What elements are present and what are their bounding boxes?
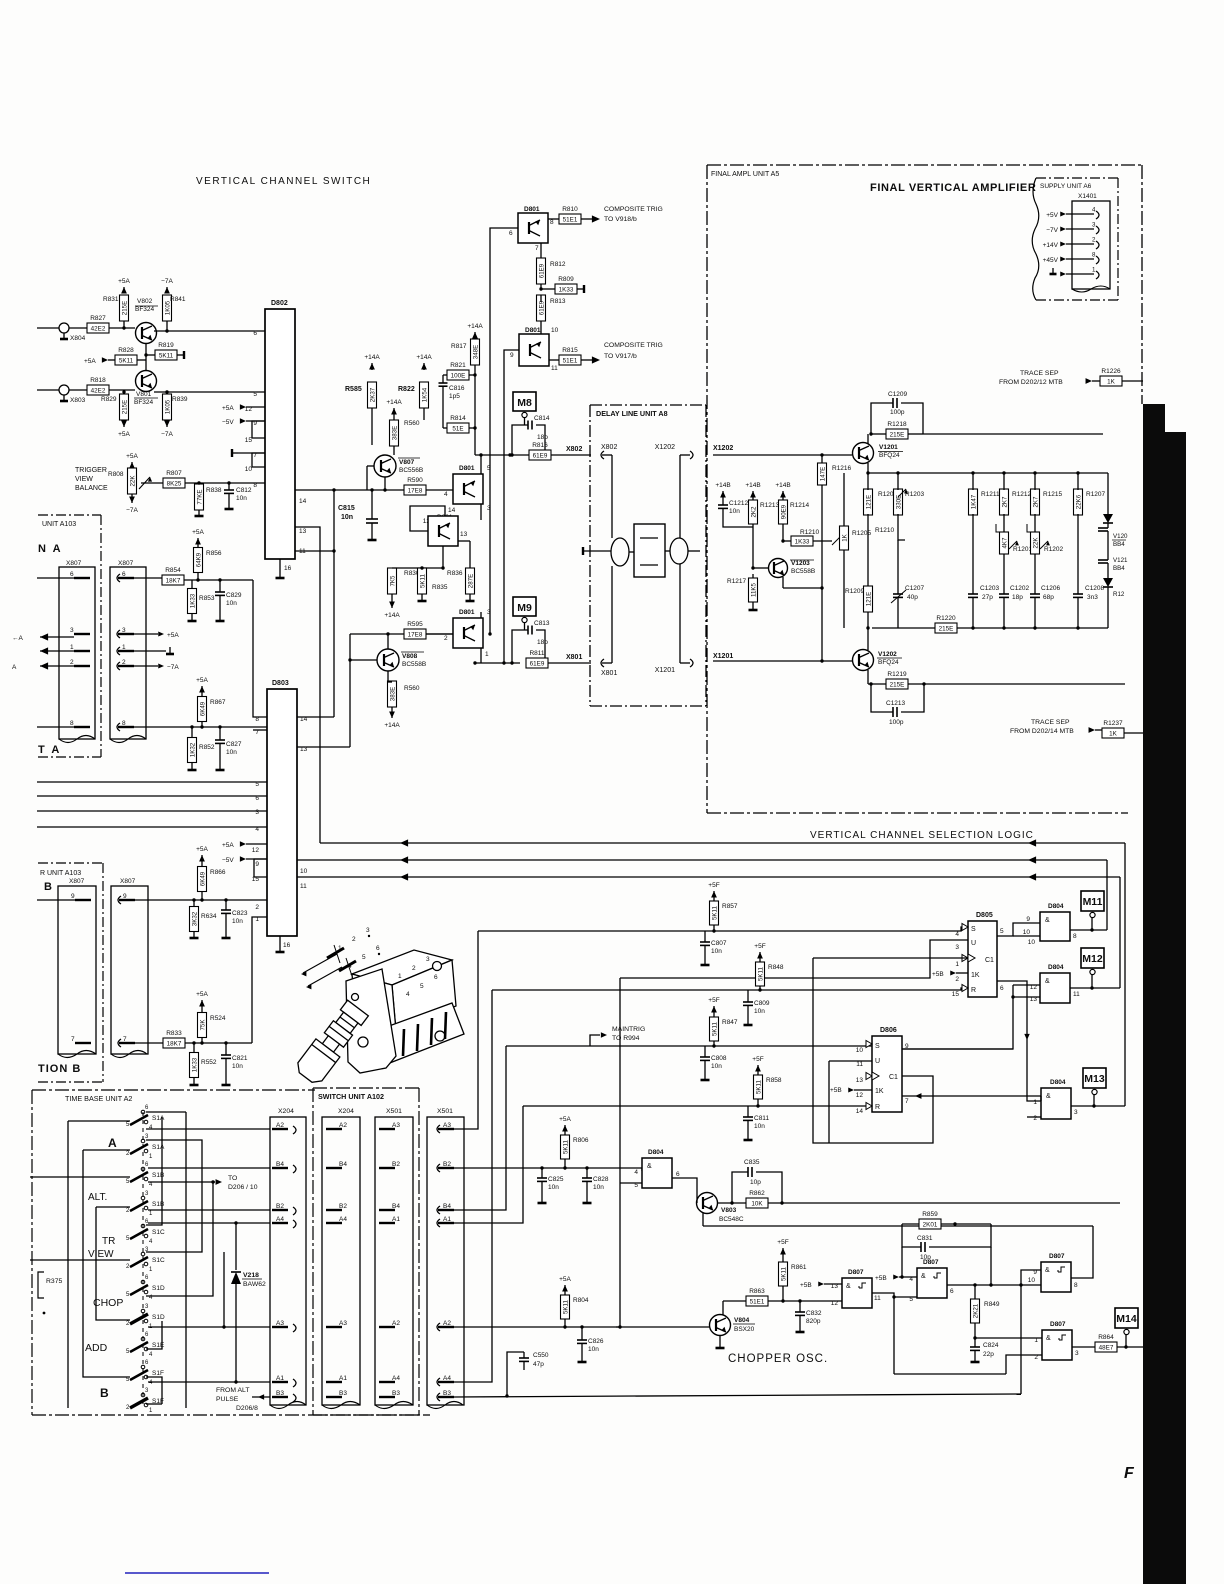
- svg-text:B: B: [100, 1386, 109, 1400]
- svg-text:1K54: 1K54: [421, 387, 428, 402]
- loop pin7 pin10: [252, 453, 265, 467]
- svg-text:8: 8: [550, 219, 554, 226]
- svg-text:6: 6: [1000, 985, 1004, 992]
- svg-text:V120: V120: [1113, 533, 1128, 540]
- svg-text:10n: 10n: [729, 508, 740, 515]
- svg-text:9: 9: [255, 861, 259, 868]
- switch assembly drawing: [294, 950, 464, 1087]
- svg-text:&: &: [1046, 1093, 1051, 1100]
- svg-text:R806: R806: [573, 1137, 589, 1144]
- wire pin6 stub: [37, 577, 74, 579]
- svg-text:2: 2: [1033, 1115, 1037, 1122]
- wire: [109, 389, 135, 391]
- svg-text:R812: R812: [550, 261, 566, 268]
- svg-text:S1A: S1A: [152, 1115, 165, 1122]
- resistor R1209: [864, 586, 873, 612]
- svg-text:X204: X204: [338, 1108, 354, 1115]
- wire V803 emitter to R862: [717, 1202, 746, 1204]
- svg-text:R841: R841: [170, 296, 186, 303]
- svg-text:3: 3: [70, 627, 74, 634]
- terminator: [177, 354, 184, 356]
- svg-text:5K11: 5K11: [780, 1266, 787, 1281]
- svg-text:+14A: +14A: [416, 354, 432, 361]
- svg-text:V802: V802: [137, 298, 153, 305]
- timebase internal wires: [68, 1120, 130, 1122]
- svg-text:2K7: 2K7: [1001, 496, 1008, 508]
- svg-text:10n: 10n: [236, 495, 247, 502]
- svg-text:C1203: C1203: [980, 585, 1000, 592]
- svg-text:61E9: 61E9: [538, 300, 545, 315]
- svg-text:1K: 1K: [841, 533, 848, 541]
- svg-text:64K9: 64K9: [195, 552, 202, 567]
- svg-text:R1220: R1220: [936, 615, 956, 622]
- svg-text:14: 14: [300, 716, 308, 723]
- svg-text:R1209: R1209: [845, 588, 865, 595]
- svg-text:−7V: −7V: [1046, 227, 1058, 234]
- svg-text:R864: R864: [1098, 1334, 1114, 1341]
- delay line ground stub left: [583, 550, 611, 552]
- svg-text:61E9: 61E9: [533, 453, 548, 460]
- capacitor C1203: [968, 593, 978, 595]
- svg-text:10: 10: [300, 868, 308, 875]
- wire B4 riser: [454, 1046, 506, 1210]
- wire D806 out9: [902, 1048, 1013, 1050]
- svg-text:R863: R863: [749, 1288, 765, 1295]
- svg-text:&: &: [647, 1163, 652, 1170]
- svg-text:+14B: +14B: [715, 482, 730, 489]
- resistor R375: [38, 1272, 44, 1298]
- svg-text:R815: R815: [562, 347, 578, 354]
- svg-text:+5A: +5A: [196, 846, 208, 853]
- wire A3 row: [148, 1326, 270, 1328]
- svg-text:4: 4: [955, 931, 959, 938]
- potentiometer R1202: [1031, 532, 1040, 554]
- svg-text:C826: C826: [588, 1338, 604, 1345]
- svg-text:R807: R807: [166, 470, 182, 477]
- svg-text:5K11: 5K11: [755, 1079, 762, 1094]
- svg-text:22K6: 22K6: [1075, 494, 1082, 509]
- wire A2 top: [146, 1128, 270, 1130]
- svg-text:R595: R595: [407, 621, 423, 628]
- svg-text:+5F: +5F: [754, 943, 765, 950]
- wire D805 out5: [997, 923, 1040, 936]
- svg-text:1K33: 1K33: [559, 287, 574, 294]
- wire logic row E: [523, 1105, 872, 1107]
- connector X803: [59, 385, 69, 395]
- svg-text:2: 2: [955, 976, 959, 983]
- svg-text:FINAL VERTICAL AMPLIFIER: FINAL VERTICAL AMPLIFIER: [870, 182, 1036, 194]
- bottom rail resistor bank: [872, 627, 1108, 629]
- svg-text:6: 6: [253, 330, 257, 337]
- svg-text:−7A: −7A: [167, 664, 179, 671]
- loop pin9 pin15 D803: [254, 859, 267, 877]
- capacitor C815: [371, 490, 373, 519]
- svg-text:C1208: C1208: [1085, 585, 1105, 592]
- svg-text:11: 11: [856, 1061, 863, 1068]
- ground pin7: [238, 452, 265, 454]
- resistor R831: [120, 295, 129, 321]
- svg-text:R814: R814: [450, 415, 466, 422]
- delay line ground stub right: [688, 550, 700, 552]
- capacitor C1202: [999, 593, 1009, 595]
- svg-text:9: 9: [1026, 916, 1030, 923]
- svg-text:+14A: +14A: [384, 722, 400, 729]
- svg-text:6: 6: [676, 1171, 680, 1178]
- wire gate b out: [1070, 987, 1120, 989]
- wire logic row D maintrig bus: [506, 1045, 872, 1047]
- svg-text:R1216: R1216: [832, 465, 852, 472]
- wire D806 C1 feedback: [813, 957, 968, 959]
- svg-text:D804: D804: [1048, 964, 1064, 971]
- svg-text:1: 1: [1092, 267, 1096, 274]
- svg-text:+5A: +5A: [196, 677, 208, 684]
- svg-text:10: 10: [1023, 929, 1031, 936]
- svg-text:R1211: R1211: [981, 491, 1000, 498]
- svg-text:12: 12: [252, 847, 260, 854]
- capacitor C829: [219, 580, 221, 592]
- svg-text:+5A: +5A: [118, 431, 130, 438]
- capacitor C816: [443, 374, 447, 376]
- svg-text:5K11: 5K11: [159, 353, 174, 360]
- svg-text:48E7: 48E7: [1099, 1345, 1114, 1352]
- svg-text:51E1: 51E1: [750, 1299, 765, 1306]
- wire pin9 drop: [504, 350, 519, 663]
- svg-text:6: 6: [509, 230, 513, 237]
- svg-text:2K21: 2K21: [972, 1303, 979, 1318]
- ground pin16 D803: [279, 936, 281, 952]
- svg-text:C1212: C1212: [729, 500, 749, 507]
- svg-text:11: 11: [1073, 991, 1080, 998]
- resistor R829: [120, 394, 129, 420]
- transistor V802: [136, 323, 157, 344]
- svg-text:S1C: S1C: [152, 1257, 165, 1264]
- svg-text:R1226: R1226: [1101, 368, 1121, 375]
- svg-text:R1202: R1202: [1044, 546, 1064, 553]
- capacitor C821: [225, 1043, 227, 1055]
- svg-text:10p: 10p: [920, 1254, 931, 1261]
- wire A signal to D803 pin8: [253, 580, 267, 717]
- svg-text:R811: R811: [529, 650, 544, 657]
- svg-text:C550: C550: [533, 1352, 549, 1359]
- svg-text:C812: C812: [236, 487, 252, 494]
- svg-text:R804: R804: [573, 1297, 589, 1304]
- svg-text:BFQ24: BFQ24: [878, 659, 899, 666]
- svg-text:13: 13: [300, 746, 308, 753]
- resistor R853: [188, 589, 197, 614]
- svg-text:R822: R822: [398, 386, 415, 393]
- svg-text:N A: N A: [38, 543, 63, 555]
- wire pin6 to R854: [134, 577, 162, 579]
- svg-text:51E1: 51E1: [563, 358, 578, 365]
- supply unit A6 box: [1036, 177, 1118, 179]
- M11 test point: [1081, 891, 1104, 911]
- svg-text:100E: 100E: [451, 373, 466, 380]
- svg-text:1K05: 1K05: [164, 399, 171, 414]
- switch drawing actuate dashes: [327, 948, 344, 958]
- wire gate a out: [1070, 929, 1107, 931]
- svg-text:D805: D805: [976, 912, 993, 919]
- svg-text:R1207: R1207: [1086, 491, 1106, 498]
- wire: [69, 327, 87, 329]
- svg-text:C1213: C1213: [886, 700, 906, 707]
- svg-text:5K11: 5K11: [711, 1021, 718, 1036]
- svg-text:14: 14: [448, 507, 456, 514]
- capacitor C809: [747, 990, 749, 1002]
- svg-text:D206/8: D206/8: [236, 1405, 258, 1412]
- svg-text:C827: C827: [226, 741, 242, 748]
- svg-text:147E: 147E: [819, 467, 826, 481]
- svg-text:77KΕ: 77KΕ: [196, 489, 203, 504]
- svg-text:51E: 51E: [452, 426, 463, 433]
- svg-text:1K: 1K: [971, 972, 980, 979]
- wire A1 row: [148, 1381, 270, 1383]
- svg-text:V808: V808: [402, 653, 418, 660]
- resistor R1212: [1000, 489, 1009, 515]
- svg-text:R1219: R1219: [887, 671, 907, 678]
- svg-text:V801: V801: [136, 391, 152, 398]
- svg-text:R858: R858: [766, 1077, 782, 1084]
- svg-text:R560: R560: [404, 420, 420, 427]
- wire pin7 stub: [253, 729, 267, 731]
- svg-text:TRACE SEP: TRACE SEP: [1020, 370, 1059, 377]
- loop pin9 pin15: [252, 421, 265, 438]
- svg-text:X807: X807: [66, 560, 82, 567]
- svg-text:11: 11: [300, 883, 307, 890]
- resistor R1214: [782, 495, 784, 500]
- wire V804 base: [616, 1326, 710, 1328]
- svg-text:3: 3: [426, 956, 430, 963]
- svg-text:+5A: +5A: [192, 529, 204, 536]
- svg-text:1K: 1K: [875, 1088, 884, 1095]
- svg-text:100p: 100p: [889, 719, 904, 726]
- switch unit box: [313, 1087, 419, 1089]
- svg-text:BB4: BB4: [1113, 541, 1125, 548]
- svg-text:1K33: 1K33: [191, 1057, 198, 1072]
- svg-text:+5A: +5A: [559, 1276, 571, 1283]
- svg-text:B: B: [44, 881, 52, 893]
- svg-text:C1: C1: [985, 957, 994, 964]
- svg-text:4: 4: [1092, 207, 1096, 214]
- svg-text:3: 3: [366, 927, 370, 934]
- svg-text:TIME BASE UNIT A2: TIME BASE UNIT A2: [65, 1094, 132, 1103]
- svg-text:←A: ←A: [12, 635, 24, 642]
- resistor R861: [779, 1262, 788, 1286]
- svg-text:D807: D807: [1050, 1321, 1066, 1328]
- svg-text:10n: 10n: [341, 514, 353, 521]
- svg-text:R1213: R1213: [760, 502, 780, 509]
- svg-text:TR: TR: [102, 1236, 115, 1247]
- svg-text:+5B: +5B: [932, 971, 944, 978]
- svg-text:R12: R12: [1113, 591, 1125, 598]
- svg-text:10: 10: [856, 1047, 864, 1054]
- svg-text:3n3: 3n3: [1087, 594, 1098, 601]
- resistor R1211: [969, 489, 978, 515]
- svg-text:TRACE SEP: TRACE SEP: [1031, 719, 1070, 726]
- svg-text:R866: R866: [210, 869, 226, 876]
- wire pin2 -7A: [134, 665, 158, 667]
- svg-text:M11: M11: [1083, 896, 1103, 908]
- wire logic row B: [492, 988, 968, 990]
- svg-text:18p: 18p: [537, 639, 548, 646]
- capacitor C812: [228, 483, 230, 490]
- svg-text:VERTICAL CHANNEL SELECTION: VERTICAL CHANNEL SELECTION LOGIC: [810, 830, 1034, 841]
- svg-text:ALT.: ALT.: [88, 1192, 107, 1203]
- resistor R836: [466, 568, 475, 594]
- svg-text:7: 7: [905, 1098, 909, 1105]
- ground at X1401 pin1: [1052, 268, 1054, 274]
- transistor V804: [710, 1315, 731, 1336]
- svg-text:22K: 22K: [1032, 537, 1039, 549]
- wire D802 pin13 drop: [295, 527, 320, 843]
- svg-text:TO R994: TO R994: [612, 1035, 640, 1042]
- svg-text:5K11: 5K11: [562, 1139, 569, 1154]
- transistor V1202: [853, 650, 874, 671]
- svg-text:X803: X803: [70, 397, 86, 404]
- svg-text:R1201: R1201: [1013, 546, 1033, 553]
- svg-text:A: A: [12, 664, 17, 671]
- svg-text:R810: R810: [562, 206, 578, 213]
- svg-text:75K: 75K: [199, 1019, 206, 1031]
- svg-text:R862: R862: [749, 1190, 765, 1197]
- wire stub b1 pin9: [37, 899, 75, 901]
- wire D805 out6: [997, 981, 1041, 1101]
- svg-text:R590: R590: [407, 477, 423, 484]
- arrow row 2: [40, 665, 74, 667]
- wire R859 left leg: [901, 1247, 903, 1277]
- wire D802 pin14 row: [295, 489, 453, 491]
- connector X804: [59, 323, 69, 333]
- svg-text:18p: 18p: [1012, 594, 1023, 601]
- svg-text:8: 8: [1092, 252, 1096, 259]
- svg-text:348E: 348E: [472, 345, 479, 359]
- diode V218: [235, 1223, 237, 1270]
- svg-text:X501: X501: [437, 1108, 453, 1115]
- maintrig arrow: [590, 1035, 600, 1046]
- capacitor C1213: [871, 684, 893, 712]
- wire pin8 stub: [37, 726, 74, 728]
- svg-text:R1218: R1218: [887, 421, 907, 428]
- svg-text:10n: 10n: [232, 1063, 243, 1070]
- svg-text:S: S: [971, 926, 976, 933]
- svg-text:S1D: S1D: [152, 1285, 165, 1292]
- capacitor C1209: [871, 403, 893, 434]
- resistor R809: [540, 284, 542, 289]
- svg-text:BC548C: BC548C: [719, 1216, 744, 1223]
- resistor R830: [388, 568, 397, 594]
- svg-text:7: 7: [535, 245, 539, 252]
- resistor R1213: [752, 495, 754, 500]
- svg-text:R560: R560: [404, 685, 420, 692]
- svg-text:COMPOSITE TRIG: COMPOSITE TRIG: [604, 206, 663, 213]
- svg-text:5: 5: [253, 391, 257, 398]
- svg-text:51E1: 51E1: [563, 217, 578, 224]
- svg-text:8: 8: [1073, 933, 1077, 940]
- resistor R634: [190, 907, 199, 932]
- svg-text:C825: C825: [548, 1176, 564, 1183]
- svg-text:R835: R835: [432, 584, 448, 591]
- svg-text:+5B: +5B: [830, 1087, 842, 1094]
- resistor R1203: [894, 489, 903, 515]
- transistor V1201: [853, 443, 874, 464]
- svg-text:R836: R836: [447, 570, 463, 577]
- svg-text:&: &: [846, 1283, 851, 1290]
- capacitor C814: [512, 425, 528, 455]
- arrow row 1: [40, 650, 74, 652]
- svg-text:121E: 121E: [865, 495, 872, 509]
- svg-text:7: 7: [71, 1036, 75, 1043]
- transistor V1203: [769, 559, 788, 578]
- svg-text:10n: 10n: [232, 918, 243, 925]
- svg-text:BFQ24: BFQ24: [879, 452, 900, 459]
- svg-text:TO V917/b: TO V917/b: [604, 353, 637, 360]
- svg-text:TO: TO: [228, 1175, 237, 1182]
- svg-text:R867: R867: [210, 699, 226, 706]
- svg-text:U: U: [875, 1058, 880, 1065]
- svg-text:PULSE: PULSE: [216, 1396, 239, 1403]
- ground V804: [719, 1336, 721, 1348]
- svg-text:5K11: 5K11: [562, 1299, 569, 1314]
- svg-text:68p: 68p: [1043, 594, 1054, 601]
- svg-text:100p: 100p: [890, 409, 905, 416]
- svg-text:BSX20: BSX20: [734, 1326, 755, 1333]
- svg-text:2K2: 2K2: [750, 506, 757, 518]
- svg-text:F: F: [1124, 1465, 1135, 1482]
- svg-text:2: 2: [412, 965, 416, 972]
- svg-text:S1F: S1F: [152, 1370, 164, 1377]
- svg-text:D801: D801: [525, 327, 541, 334]
- M9 test point: [513, 597, 536, 616]
- svg-text:383E: 383E: [389, 687, 396, 701]
- svg-text:5: 5: [420, 983, 424, 990]
- svg-text:X804: X804: [70, 335, 86, 342]
- svg-text:10n: 10n: [548, 1184, 559, 1191]
- svg-text:C1206: C1206: [1041, 585, 1061, 592]
- svg-text:3: 3: [955, 944, 959, 951]
- svg-text:4: 4: [255, 826, 259, 833]
- capacitor C827: [219, 727, 221, 740]
- svg-text:8K25: 8K25: [167, 481, 182, 488]
- bus line 1: [320, 842, 1125, 844]
- svg-text:MAINTRIG: MAINTRIG: [612, 1026, 645, 1033]
- svg-text:6: 6: [70, 571, 74, 578]
- svg-text:D801: D801: [524, 206, 540, 213]
- svg-text:&: &: [1046, 1335, 1051, 1342]
- svg-text:2K01: 2K01: [923, 1222, 938, 1229]
- capacitor C1212: [722, 495, 724, 505]
- svg-text:M14: M14: [1116, 1313, 1137, 1325]
- wire B3 row: [252, 1396, 270, 1398]
- svg-text:11: 11: [874, 1295, 881, 1302]
- svg-text:SUPPLY UNIT A6: SUPPLY UNIT A6: [1040, 183, 1092, 190]
- resistor R1216: [818, 463, 827, 485]
- svg-text:BF324: BF324: [134, 399, 154, 406]
- wire X801 node: [475, 662, 520, 664]
- svg-text:S1E: S1E: [152, 1342, 165, 1349]
- svg-text:1K32: 1K32: [189, 742, 196, 757]
- svg-text:6: 6: [255, 795, 259, 802]
- capacitor C807: [704, 931, 706, 942]
- svg-text:+5A: +5A: [196, 991, 208, 998]
- svg-text:6K49: 6K49: [199, 871, 206, 886]
- svg-text:D802: D802: [271, 300, 288, 307]
- wire top rail: [923, 433, 1103, 435]
- connector X802 delay side: [601, 451, 604, 459]
- svg-text:C811: C811: [754, 1115, 769, 1122]
- wire: [69, 389, 87, 391]
- capacitor C825: [541, 1168, 543, 1178]
- bus line 3: [297, 876, 1120, 878]
- wire gate b inputs: [1013, 984, 1040, 986]
